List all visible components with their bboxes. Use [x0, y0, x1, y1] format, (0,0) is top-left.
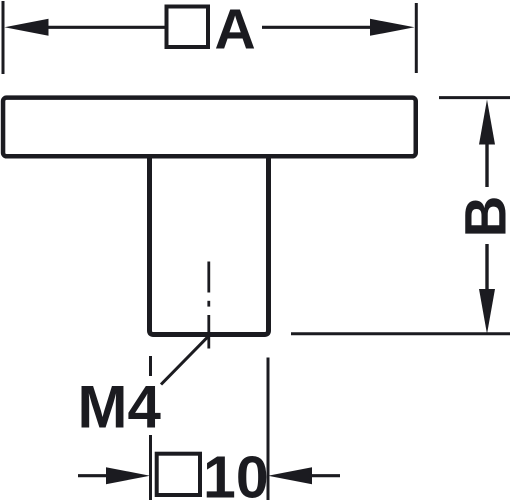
dimension B: upper arrowhead [479, 100, 495, 145]
svg-text:A: A [215, 0, 256, 61]
svg-text:10: 10 [203, 445, 269, 500]
svg-text:B: B [454, 196, 517, 238]
knob stem (shank) [150, 154, 269, 335]
dimension B: top extension line [439, 96, 510, 99]
dimension 10: right tail line [311, 474, 340, 477]
dimension A: left dimension line segment [47, 26, 165, 29]
dimension 10: right extension line [267, 358, 270, 500]
dimension A: right extension line [415, 3, 418, 73]
centerline of stem (dash-dot) [207, 262, 210, 293]
svg-text:M4: M4 [78, 374, 162, 441]
dimension 10: left tail line [78, 474, 107, 477]
dimension A: square symbol [167, 7, 209, 48]
dimension A: right dimension line segment [262, 26, 371, 29]
dimension B: lower arrowhead [479, 289, 495, 334]
dimension A: right arrowhead [370, 19, 415, 36]
dimension 10: right arrowhead [268, 467, 312, 484]
leader line for M4 [161, 335, 209, 384]
dimension B: bottom extension line [291, 332, 510, 335]
dimension A: left extension line [2, 1, 5, 74]
dimension 10: square symbol [157, 454, 200, 495]
dimension A: left arrowhead [5, 19, 49, 36]
dimension 10: left arrowhead [106, 467, 150, 484]
knob top bar (head) [3, 98, 416, 157]
dimension 10: left extension line (two segments) [149, 356, 152, 376]
dimension B: upper dimension line segment [485, 143, 488, 187]
dimension B: lower dimension line segment [485, 244, 488, 290]
